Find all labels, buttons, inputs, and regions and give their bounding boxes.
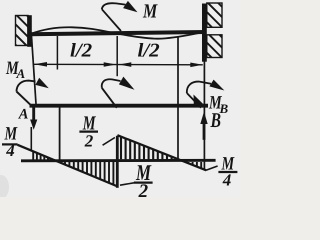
BMD midspan jump line bbox=[116, 136, 119, 188]
dim arrowhead left bbox=[34, 62, 47, 67]
zero-point line right bbox=[177, 36, 179, 161]
reaction moment MB arrow tail bbox=[187, 93, 201, 108]
BMD right sloped line bbox=[117, 135, 206, 170]
middle applied moment arrow arc bbox=[102, 79, 121, 88]
left support extension line bbox=[32, 36, 37, 104]
reaction force A arrow bbox=[32, 108, 35, 122]
zero-point line lower left bbox=[59, 107, 61, 161]
BMD right leader to M/4 bbox=[206, 166, 218, 170]
free-body beam (thick) bbox=[30, 104, 209, 108]
svg-text:A: A bbox=[16, 66, 26, 81]
applied moment arrow M (top) tail bbox=[102, 9, 121, 31]
corner smudge bottom-left bbox=[0, 175, 9, 199]
reaction moment MA arrow head bbox=[35, 78, 48, 89]
reaction force B arrow bbox=[203, 123, 206, 140]
svg-text:l/2: l/2 bbox=[70, 40, 93, 61]
svg-text:4: 4 bbox=[222, 170, 232, 189]
reaction moment MA arrow tail bbox=[17, 92, 31, 105]
midspan extension line bbox=[116, 36, 118, 76]
left wall support bbox=[16, 15, 32, 47]
reaction moment MB tail wedge bbox=[194, 95, 205, 106]
reaction moment MB arrow arc bbox=[187, 82, 211, 93]
svg-text:B: B bbox=[210, 108, 221, 132]
svg-text:M: M bbox=[142, 0, 158, 22]
deflection curve bbox=[31, 27, 205, 38]
BMD hatch left-below baseline bbox=[65, 162, 113, 185]
applied moment arrow M (top) head bbox=[123, 1, 137, 12]
dim arrowhead right bbox=[190, 63, 203, 68]
paper background bbox=[0, 0, 240, 197]
BMD left sloped line bbox=[18, 145, 118, 187]
middle applied moment arrow head bbox=[119, 77, 135, 90]
zero-point line upper left bbox=[56, 36, 58, 70]
dim arrowhead mid-left bbox=[104, 62, 117, 67]
beam (top, thick) bbox=[29, 32, 206, 34]
BMD hatch right-below baseline bbox=[184, 162, 201, 169]
dimension line bbox=[34, 63, 203, 66]
right support extension line bbox=[203, 36, 205, 170]
reaction moment MB arrow head bbox=[209, 80, 224, 91]
right wall support bbox=[202, 3, 222, 62]
applied moment arrow M (top) arc bbox=[102, 3, 126, 9]
svg-text:l/2: l/2 bbox=[137, 40, 160, 61]
leader upper M/2 bbox=[103, 138, 115, 146]
svg-text:A: A bbox=[18, 106, 29, 122]
BMD hatch right-above baseline bbox=[121, 137, 172, 160]
reaction moment MA arrow arc bbox=[17, 81, 36, 92]
left support line lower segment bbox=[30, 127, 32, 151]
svg-text:2: 2 bbox=[84, 131, 94, 150]
dim arrowhead mid-right bbox=[119, 62, 131, 67]
svg-text:4: 4 bbox=[5, 141, 15, 160]
BMD baseline bbox=[21, 159, 216, 162]
BMD hatch left-above baseline bbox=[33, 152, 52, 160]
leader lower M/2 bbox=[120, 183, 134, 185]
middle applied moment arrow tail bbox=[102, 88, 117, 108]
svg-text:2: 2 bbox=[138, 181, 149, 197]
